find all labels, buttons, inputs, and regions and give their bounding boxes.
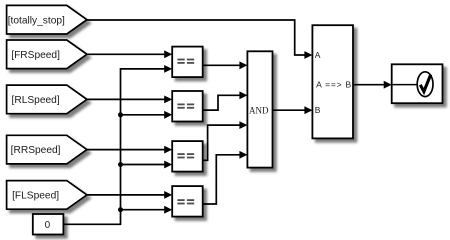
from tag [FLSpeed] (7, 181, 87, 210)
junction dot EQ2 branch (118, 112, 123, 117)
implication block A ==> B (312, 25, 353, 138)
wire implication out -> verify block (353, 84, 385, 86)
verify/assertion block (check mark) (392, 64, 443, 103)
arrowhead at EQ1 in2 (164, 65, 172, 73)
svg-text:B: B (315, 105, 321, 115)
svg-text:0: 0 (45, 220, 51, 231)
arrowhead at AND in3 (239, 121, 247, 129)
wire EQ3 out -> AND in3 (203, 125, 241, 160)
svg-text:A: A (315, 50, 321, 60)
arrowhead at implication A (304, 51, 312, 59)
from tag [RLSpeed] (7, 85, 87, 114)
arrowhead at EQ4 in2 (164, 206, 172, 214)
svg-text:[RRSpeed]: [RRSpeed] (11, 145, 61, 156)
constant block 0 (33, 214, 64, 235)
wire EQ1 out -> AND in1 (203, 64, 241, 66)
svg-text:[totally_stop]: [totally_stop] (8, 15, 65, 26)
from tag [totally_stop] (7, 5, 87, 34)
svg-text:A ==> B: A ==> B (316, 80, 352, 90)
svg-text:AND: AND (249, 105, 269, 115)
wire FRSpeed -> EQ1 in1 (87, 53, 166, 55)
arrowhead at EQ2 in2 (164, 111, 172, 119)
relational operator EQ2 (==) (172, 91, 203, 122)
arrowhead at EQ3 in2 (164, 161, 172, 169)
arrowhead at EQ2 in1 (164, 96, 172, 104)
arrowhead at verify block (384, 81, 392, 89)
arrowhead at EQ4 in1 (164, 191, 172, 199)
relational operator EQ3 (==) (172, 141, 203, 172)
wire branch bus -> EQ4 in2 (121, 209, 166, 211)
wire FLSpeed -> EQ4 in1 (87, 194, 166, 196)
wire RLSpeed -> EQ2 in1 (87, 98, 166, 100)
arrowhead at AND in2 (239, 91, 247, 99)
wire AND out -> implication B (273, 109, 306, 111)
wire branch bus -> EQ2 in2 (121, 114, 166, 116)
logical operator AND (247, 51, 272, 167)
junction dot EQ3 branch (118, 162, 123, 167)
arrowhead at AND in4 (239, 151, 247, 159)
from tag [FRSpeed] (7, 40, 87, 69)
wire totally_stop -> implication A (87, 20, 306, 55)
from tag [RRSpeed] (7, 135, 87, 164)
arrowhead at EQ3 in1 (164, 146, 172, 154)
svg-text:[FRSpeed]: [FRSpeed] (11, 50, 60, 61)
arrowhead at EQ1 in1 (164, 50, 172, 58)
wire constant 0 -> bus -> EQ1 in2 (63, 69, 165, 224)
svg-text:[FLSpeed]: [FLSpeed] (12, 191, 59, 202)
arrowhead at implication B (304, 106, 312, 114)
junction dot EQ4 branch (118, 207, 123, 212)
relational operator EQ4 (==) (172, 186, 203, 217)
wire EQ4 out -> AND in4 (203, 155, 241, 204)
arrowhead at AND in1 (239, 61, 247, 69)
svg-text:[RLSpeed]: [RLSpeed] (12, 95, 60, 106)
wire RRSpeed -> EQ3 in1 (87, 149, 166, 151)
wire EQ2 out -> AND in2 (203, 95, 241, 110)
relational operator EQ1 (==) (172, 47, 203, 78)
wire branch bus -> EQ3 in2 (121, 164, 166, 166)
